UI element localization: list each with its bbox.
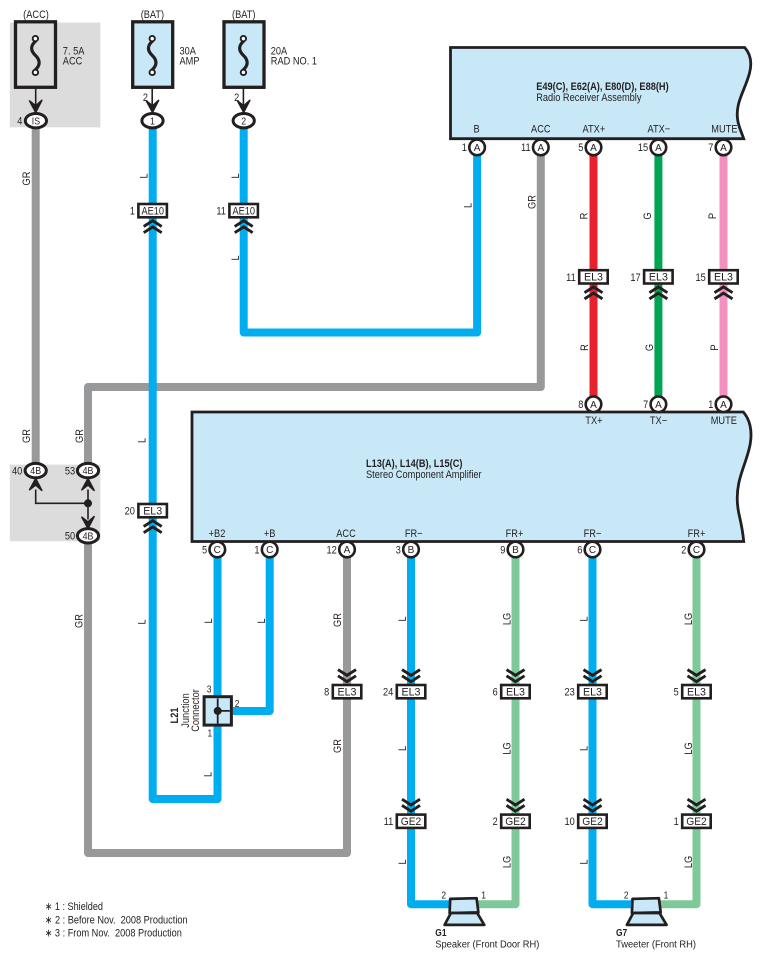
svg-text:5: 5 — [202, 544, 207, 556]
svg-text:11: 11 — [384, 816, 394, 828]
svg-text:1: 1 — [130, 206, 135, 218]
svg-text:P: P — [707, 213, 719, 219]
connector 4B pin 40 — [25, 463, 46, 477]
svg-text:C: C — [266, 545, 273, 556]
svg-text:ATX+: ATX+ — [583, 123, 606, 135]
svg-text:15: 15 — [695, 272, 705, 284]
svg-text:A: A — [720, 400, 727, 411]
svg-text:L: L — [579, 859, 591, 864]
svg-text:ACC: ACC — [336, 528, 356, 540]
wire P radio MUTE to amp MUTE — [720, 151, 728, 401]
svg-text:1: 1 — [664, 890, 669, 901]
svg-text:EL3: EL3 — [714, 272, 733, 284]
svg-text:A: A — [720, 143, 727, 154]
svg-text:3: 3 — [207, 684, 212, 695]
svg-text:G: G — [644, 344, 656, 351]
svg-text:L: L — [256, 618, 268, 623]
connector EL3 pin 23 — [578, 685, 607, 698]
svg-text:8: 8 — [324, 687, 329, 699]
connector EL3 pin 24 — [397, 685, 426, 698]
connector EL3 pin 6 — [501, 685, 530, 698]
svg-text:EL3: EL3 — [583, 687, 602, 699]
svg-text:EL3: EL3 — [687, 687, 706, 699]
svg-text:LG: LG — [683, 613, 695, 625]
svg-text:C: C — [693, 545, 700, 556]
connector 2 — [233, 114, 254, 128]
arrow into GE2 pin 11 — [402, 799, 420, 811]
svg-text:(BAT): (BAT) — [141, 9, 164, 21]
svg-text:L: L — [137, 438, 149, 443]
svg-text:EL3: EL3 — [584, 272, 603, 284]
amp pin 12(A) ACC — [339, 542, 355, 558]
connector EL3 pin 11 — [579, 270, 608, 283]
svg-text:LG: LG — [502, 613, 514, 625]
svg-text:11: 11 — [216, 206, 226, 218]
wire GR from 50(4B) to amplifier ACC — [88, 542, 347, 853]
svg-text:R: R — [579, 344, 591, 351]
svg-text:Stereo Component Amplifier: Stereo Component Amplifier — [366, 469, 482, 481]
svg-text:ATX−: ATX− — [648, 123, 671, 135]
svg-text:Tweeter (Front RH): Tweeter (Front RH) — [616, 939, 696, 950]
svg-text:LG: LG — [683, 742, 695, 754]
svg-text:A: A — [474, 143, 481, 154]
svg-text:G1: G1 — [435, 928, 447, 939]
svg-text:GR: GR — [21, 172, 33, 186]
connector GE2 pin 1 — [682, 815, 711, 828]
arrow into EL3 pin 5 — [688, 670, 706, 682]
svg-text:Speaker (Front Door RH): Speaker (Front Door RH) — [435, 939, 539, 950]
arrow into GE2 pin 10 — [584, 799, 602, 811]
connector IS pin 4 — [25, 114, 46, 128]
svg-text:11: 11 — [566, 272, 576, 284]
svg-text:LG: LG — [502, 856, 514, 868]
arrow into GE2 pin 1 — [688, 799, 706, 811]
wire L from fuse AMP via EL3 to junction pin 1 — [153, 125, 218, 799]
amp pin 6(C) FR- — [585, 542, 601, 558]
wire GR from fuse IS to 40(4B) — [32, 124, 40, 466]
link 40/53 to 50 in junction block — [36, 490, 88, 520]
amp pin 1(A) MUTE — [716, 397, 732, 413]
svg-text:7: 7 — [708, 142, 713, 154]
amp pin 1(C) +B — [262, 542, 278, 558]
svg-text:9: 9 — [500, 544, 505, 556]
speaker G1 (front door RH) — [450, 898, 479, 913]
svg-text:1: 1 — [708, 399, 713, 411]
fuse 30A AMP — [133, 22, 173, 88]
connector GE2 pin 10 — [578, 815, 607, 828]
svg-text:EL3: EL3 — [338, 687, 357, 699]
svg-text:AMP: AMP — [180, 55, 200, 67]
wire L amp FR- to speaker G1 pin 2 — [411, 553, 452, 904]
amp pin 5(C) +B2 — [210, 542, 226, 558]
svg-text:C: C — [214, 545, 221, 556]
radio pin 1(A) B — [469, 140, 485, 156]
svg-text:1: 1 — [208, 729, 213, 740]
connector EL3 pin 20 — [138, 504, 167, 517]
svg-text:L: L — [579, 746, 591, 751]
fuse 7.5A ACC — [16, 22, 56, 88]
radio pin 11(A) ACC — [533, 140, 549, 156]
radio pin 15(A) ATX- — [651, 140, 667, 156]
svg-text:L: L — [203, 618, 215, 623]
svg-text:GR: GR — [74, 429, 86, 443]
svg-text:50: 50 — [65, 531, 75, 543]
svg-text:B: B — [474, 123, 480, 135]
arrow into EL3 pin 6 — [507, 670, 525, 682]
svg-text:2: 2 — [493, 816, 498, 828]
connector AE10 pin 1 — [138, 204, 167, 217]
svg-text:TX−: TX− — [650, 415, 667, 427]
svg-text:EL3: EL3 — [402, 687, 421, 699]
svg-text:4B: 4B — [30, 465, 41, 477]
amp pin 2(C) FR+ — [689, 542, 705, 558]
svg-text:L: L — [230, 255, 242, 260]
svg-text:+B: +B — [264, 528, 276, 540]
svg-text:ACC: ACC — [531, 123, 551, 135]
wire L from fuse RAD NO.1 to radio B — [244, 125, 477, 333]
svg-text:GE2: GE2 — [401, 816, 422, 828]
svg-text:P: P — [709, 344, 721, 350]
connector 4B pin 50 — [77, 529, 98, 543]
svg-text:GE2: GE2 — [505, 816, 526, 828]
svg-text:B: B — [512, 545, 519, 556]
svg-text:1: 1 — [254, 544, 259, 556]
svg-text:8: 8 — [578, 399, 583, 411]
svg-text:6: 6 — [493, 687, 498, 699]
svg-text:6: 6 — [577, 544, 582, 556]
svg-text:EL3: EL3 — [649, 272, 668, 284]
svg-text:R: R — [578, 213, 590, 220]
svg-text:L: L — [463, 203, 475, 208]
svg-text:3: 3 — [396, 544, 401, 556]
stereo component amplifier — [192, 412, 751, 542]
wire LG amp FR+ to speaker G1 pin 1 — [476, 553, 516, 904]
wire GR from radio ACC to 53(4B) — [88, 151, 541, 466]
wire L amp +B to junction pin 2 — [233, 553, 270, 711]
svg-text:2: 2 — [234, 92, 239, 104]
svg-text:A: A — [655, 143, 662, 154]
junction block shade (ACC fuse area) — [10, 23, 101, 128]
radio pin 7(A) MUTE — [716, 140, 732, 156]
svg-text:7: 7 — [643, 399, 648, 411]
lead fuse RAD to connector 2 — [242, 72, 244, 108]
connector 1 — [142, 114, 163, 128]
connector AE10 pin 11 — [229, 204, 258, 217]
radio pin 5(A) ATX+ — [586, 140, 602, 156]
arrow into 53(4B) — [82, 479, 94, 491]
svg-text:Radio Receiver Assembly: Radio Receiver Assembly — [536, 92, 642, 104]
svg-text:C: C — [589, 545, 596, 556]
svg-text:AE10: AE10 — [141, 206, 164, 218]
arrow into EL3 pin 23 — [584, 670, 602, 682]
svg-text:4: 4 — [17, 116, 22, 128]
wire R radio ATX+ to amp TX+ — [590, 151, 598, 401]
svg-text:FR+: FR+ — [688, 528, 706, 540]
svg-text:FR−: FR− — [405, 528, 423, 540]
svg-text:1: 1 — [674, 816, 679, 828]
connector 4B pin 53 — [77, 463, 98, 477]
wire L amp FR- to tweeter G7 pin 2 — [593, 553, 635, 904]
connector EL3 pin 15 — [709, 270, 738, 283]
svg-text:Connector: Connector — [190, 689, 202, 732]
arrow into GE2 pin 2 — [507, 799, 525, 811]
svg-text:A: A — [537, 143, 544, 154]
svg-text:L: L — [137, 619, 149, 624]
tweeter G7 (front RH) — [632, 898, 661, 913]
amp pin 8(A) TX+ — [586, 397, 602, 413]
svg-text:5: 5 — [578, 142, 583, 154]
amp pin 3(B) FR- — [403, 542, 419, 558]
wire L amp +B2 to junction pin 3 — [214, 553, 222, 699]
radio receiver assembly — [451, 48, 751, 139]
svg-text:(BAT): (BAT) — [232, 9, 255, 21]
connector EL3 pin 5 — [682, 685, 711, 698]
svg-text:GR: GR — [332, 739, 344, 753]
svg-text:17: 17 — [630, 272, 640, 284]
svg-text:A: A — [344, 545, 351, 556]
svg-text:A: A — [655, 400, 662, 411]
svg-text:∗ 1 : Shielded: ∗ 1 : Shielded — [45, 901, 103, 913]
svg-text:11: 11 — [521, 142, 531, 154]
junction connector L21 — [204, 697, 231, 725]
svg-text:∗ 3 : From Nov. 2008 Producti: ∗ 3 : From Nov. 2008 Production — [45, 928, 182, 940]
svg-text:MUTE: MUTE — [711, 415, 737, 427]
svg-text:B: B — [408, 545, 415, 556]
svg-text:GR: GR — [527, 195, 539, 209]
svg-text:GR: GR — [21, 429, 33, 443]
svg-text:2: 2 — [241, 115, 246, 127]
svg-text:GE2: GE2 — [582, 816, 603, 828]
svg-text:RAD NO. 1: RAD NO. 1 — [271, 55, 317, 67]
svg-text:MUTE: MUTE — [711, 123, 737, 135]
svg-text:G: G — [642, 212, 654, 219]
svg-text:ACC: ACC — [63, 55, 83, 67]
svg-text:2: 2 — [624, 890, 629, 901]
svg-text:EL3: EL3 — [506, 687, 525, 699]
svg-text:AE10: AE10 — [232, 206, 255, 218]
lead fuse AMP to connector 1 — [151, 72, 153, 108]
junction block shade (4B area) — [10, 465, 101, 542]
svg-text:24: 24 — [383, 687, 393, 699]
svg-text:LG: LG — [502, 742, 514, 754]
svg-text:4B: 4B — [83, 530, 94, 542]
svg-text:L: L — [203, 772, 215, 777]
svg-text:G7: G7 — [616, 928, 628, 939]
connector GE2 pin 2 — [501, 815, 530, 828]
amp pin 9(B) FR+ — [508, 542, 524, 558]
arrow into EL3 pin 24 — [402, 670, 420, 682]
svg-text:LG: LG — [683, 856, 695, 868]
svg-text:L: L — [397, 859, 409, 864]
svg-text:GR: GR — [332, 613, 344, 627]
svg-text:FR+: FR+ — [506, 528, 524, 540]
svg-text:10: 10 — [564, 816, 574, 828]
svg-text:L: L — [397, 746, 409, 751]
arrow into EL3 pin 8 — [338, 670, 356, 682]
svg-text:TX+: TX+ — [585, 415, 602, 427]
svg-text:L: L — [230, 173, 242, 178]
svg-text:40: 40 — [12, 465, 22, 477]
amp pin 7(A) TX- — [651, 397, 667, 413]
svg-text:A: A — [590, 400, 597, 411]
svg-text:1: 1 — [150, 115, 155, 127]
svg-text:L: L — [138, 173, 150, 178]
svg-text:20: 20 — [125, 506, 135, 518]
svg-text:(ACC): (ACC) — [23, 9, 49, 21]
svg-text:2: 2 — [235, 699, 240, 710]
svg-text:53: 53 — [65, 465, 75, 477]
svg-text:L: L — [397, 616, 409, 621]
svg-text:FR−: FR− — [584, 528, 602, 540]
svg-text:23: 23 — [564, 687, 574, 699]
lead fuse ACC to IS — [35, 72, 37, 108]
svg-text:2: 2 — [441, 890, 446, 901]
svg-text:4B: 4B — [83, 465, 94, 477]
arrow into 50(4B) — [82, 517, 94, 529]
svg-text:5: 5 — [674, 687, 679, 699]
junction dot 4B — [84, 499, 92, 507]
svg-text:2: 2 — [143, 92, 148, 104]
svg-text:A: A — [590, 143, 597, 154]
svg-text:+B2: +B2 — [209, 528, 226, 540]
wire G radio ATX- to amp TX- — [654, 151, 662, 401]
svg-text:∗ 2 : Before Nov. 2008 Produc: ∗ 2 : Before Nov. 2008 Production — [45, 914, 188, 926]
connector EL3 pin 17 — [644, 270, 673, 283]
svg-text:12: 12 — [327, 544, 337, 556]
connector GE2 pin 11 — [397, 815, 426, 828]
fuse 20A RAD NO.1 — [224, 22, 264, 88]
connector EL3 pin 8 — [333, 685, 362, 698]
svg-text:L: L — [579, 616, 591, 621]
svg-text:1: 1 — [462, 142, 467, 154]
wire LG amp FR+ to tweeter G7 pin 1 — [658, 553, 697, 904]
svg-text:IS: IS — [32, 115, 40, 127]
svg-text:GE2: GE2 — [686, 816, 707, 828]
arrow into 40(4B) — [30, 479, 42, 491]
svg-text:EL3: EL3 — [143, 506, 162, 518]
svg-text:1: 1 — [481, 890, 486, 901]
svg-text:15: 15 — [638, 142, 648, 154]
svg-text:GR: GR — [74, 614, 86, 628]
svg-text:2: 2 — [681, 544, 686, 556]
